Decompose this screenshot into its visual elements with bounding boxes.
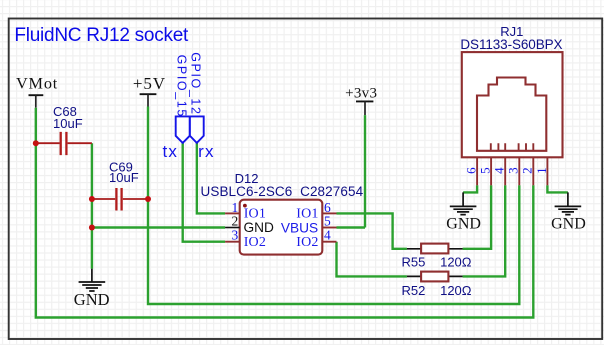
wire IC pin2 GND bbox=[92, 226, 225, 228]
svg-text:GPIO_12: GPIO_12 bbox=[188, 52, 202, 115]
RJ pin 3 lead bbox=[518, 157, 520, 185]
svg-text:+3v3: +3v3 bbox=[345, 85, 377, 101]
power flag VMot bbox=[16, 74, 58, 108]
svg-text:5: 5 bbox=[478, 167, 493, 174]
svg-text:IO1: IO1 bbox=[244, 206, 266, 221]
power flag +3v3 bbox=[345, 85, 377, 115]
net flag GPIO_12 bbox=[188, 52, 203, 143]
pin1 marker dot bbox=[243, 204, 247, 208]
RJ pin 4 lead bbox=[504, 157, 506, 185]
RJ body bbox=[462, 52, 563, 157]
net flag GPIO_15 bbox=[175, 55, 190, 143]
svg-text:FluidNC RJ12 socket: FluidNC RJ12 socket bbox=[14, 25, 189, 46]
RJ jack profile bbox=[477, 78, 546, 151]
junction C69 right / +5V bbox=[145, 196, 151, 202]
svg-text:120Ω: 120Ω bbox=[440, 255, 472, 270]
wire +3v3 to IC pin5 bbox=[337, 115, 366, 227]
wire R52 to RJ pin4 bbox=[463, 185, 506, 276]
op-amp U1 : IC D12 USBLC6-2SC6 bbox=[201, 171, 364, 255]
svg-text:3: 3 bbox=[231, 228, 238, 243]
svg-text:1: 1 bbox=[534, 167, 549, 174]
resistor R55 bbox=[402, 244, 472, 270]
ground (RJ right) bbox=[551, 192, 586, 232]
connector RJ1 DS1133-S60BPX bbox=[460, 24, 562, 185]
wire tx to IC pin3 bbox=[183, 143, 225, 242]
svg-text:VBUS: VBUS bbox=[281, 221, 318, 236]
svg-text:6: 6 bbox=[464, 167, 479, 174]
wire middle vertical C68/C69/GND rail bbox=[91, 143, 93, 269]
svg-text:3: 3 bbox=[506, 167, 521, 174]
junction VMot/C68 bbox=[33, 140, 39, 146]
svg-text:4: 4 bbox=[492, 167, 507, 174]
ground (RJ left) bbox=[446, 192, 481, 232]
wire RJ pin6 to ground bbox=[463, 185, 477, 192]
RJ pin 2 lead bbox=[532, 157, 534, 185]
wire IC pin6 to R55 bbox=[337, 213, 407, 248]
svg-text:GND: GND bbox=[446, 216, 481, 233]
svg-text:GND: GND bbox=[74, 290, 110, 309]
wire RJ pin1 to ground bbox=[547, 185, 568, 192]
svg-text:DS1133-S60BPX: DS1133-S60BPX bbox=[460, 37, 562, 52]
svg-text:120Ω: 120Ω bbox=[440, 283, 472, 298]
wire VMot rail to RJ pin2 bbox=[36, 108, 534, 318]
junction C69 left bbox=[89, 196, 95, 202]
svg-text:2: 2 bbox=[231, 213, 238, 228]
pin 4 lead bbox=[322, 241, 336, 243]
capacitor C69 bbox=[92, 160, 148, 211]
wire +5V rail to RJ pin3 bbox=[148, 107, 519, 305]
pin 3 lead bbox=[225, 241, 240, 243]
svg-text:IO1: IO1 bbox=[296, 206, 318, 221]
pin 1 lead bbox=[225, 212, 240, 214]
RJ contact ticks bbox=[491, 143, 534, 151]
svg-text:10uF: 10uF bbox=[53, 116, 83, 131]
IC body bbox=[240, 200, 323, 255]
svg-text:+5V: +5V bbox=[133, 74, 166, 93]
svg-text:2: 2 bbox=[520, 167, 535, 174]
svg-text:5: 5 bbox=[324, 213, 331, 228]
wire R55 to RJ pin5 bbox=[463, 185, 492, 249]
wire IC pin4 to R52 bbox=[337, 242, 407, 277]
RJ pin 1 lead bbox=[546, 157, 548, 185]
capacitor C68 bbox=[36, 104, 92, 155]
junction GND rail / IC pin2 bbox=[89, 225, 95, 231]
RJ pin 6 lead bbox=[476, 157, 478, 185]
resistor R52 bbox=[402, 272, 472, 298]
svg-text:R52: R52 bbox=[402, 283, 426, 298]
pin 2 lead bbox=[225, 227, 240, 229]
RJ pin 5 lead bbox=[490, 157, 492, 185]
wire rx to IC pin1 bbox=[197, 143, 225, 214]
pin 6 lead bbox=[322, 212, 336, 214]
svg-text:4: 4 bbox=[324, 228, 331, 243]
power flag +5V bbox=[133, 74, 166, 107]
svg-text:USBLC6-2SC6 C2827654: USBLC6-2SC6 C2827654 bbox=[201, 184, 364, 199]
svg-text:rx: rx bbox=[198, 142, 215, 161]
svg-text:tx: tx bbox=[163, 142, 179, 161]
svg-text:R55: R55 bbox=[402, 255, 426, 270]
ground (bottom left) bbox=[74, 269, 110, 309]
svg-text:IO2: IO2 bbox=[244, 235, 266, 250]
svg-text:10uF: 10uF bbox=[109, 170, 139, 185]
svg-text:GND: GND bbox=[551, 216, 586, 233]
svg-text:VMot: VMot bbox=[16, 74, 58, 93]
svg-text:GPIO_15: GPIO_15 bbox=[175, 55, 189, 118]
pin 5 lead bbox=[322, 227, 336, 229]
svg-text:IO2: IO2 bbox=[296, 235, 318, 250]
svg-text:GND: GND bbox=[244, 220, 275, 235]
